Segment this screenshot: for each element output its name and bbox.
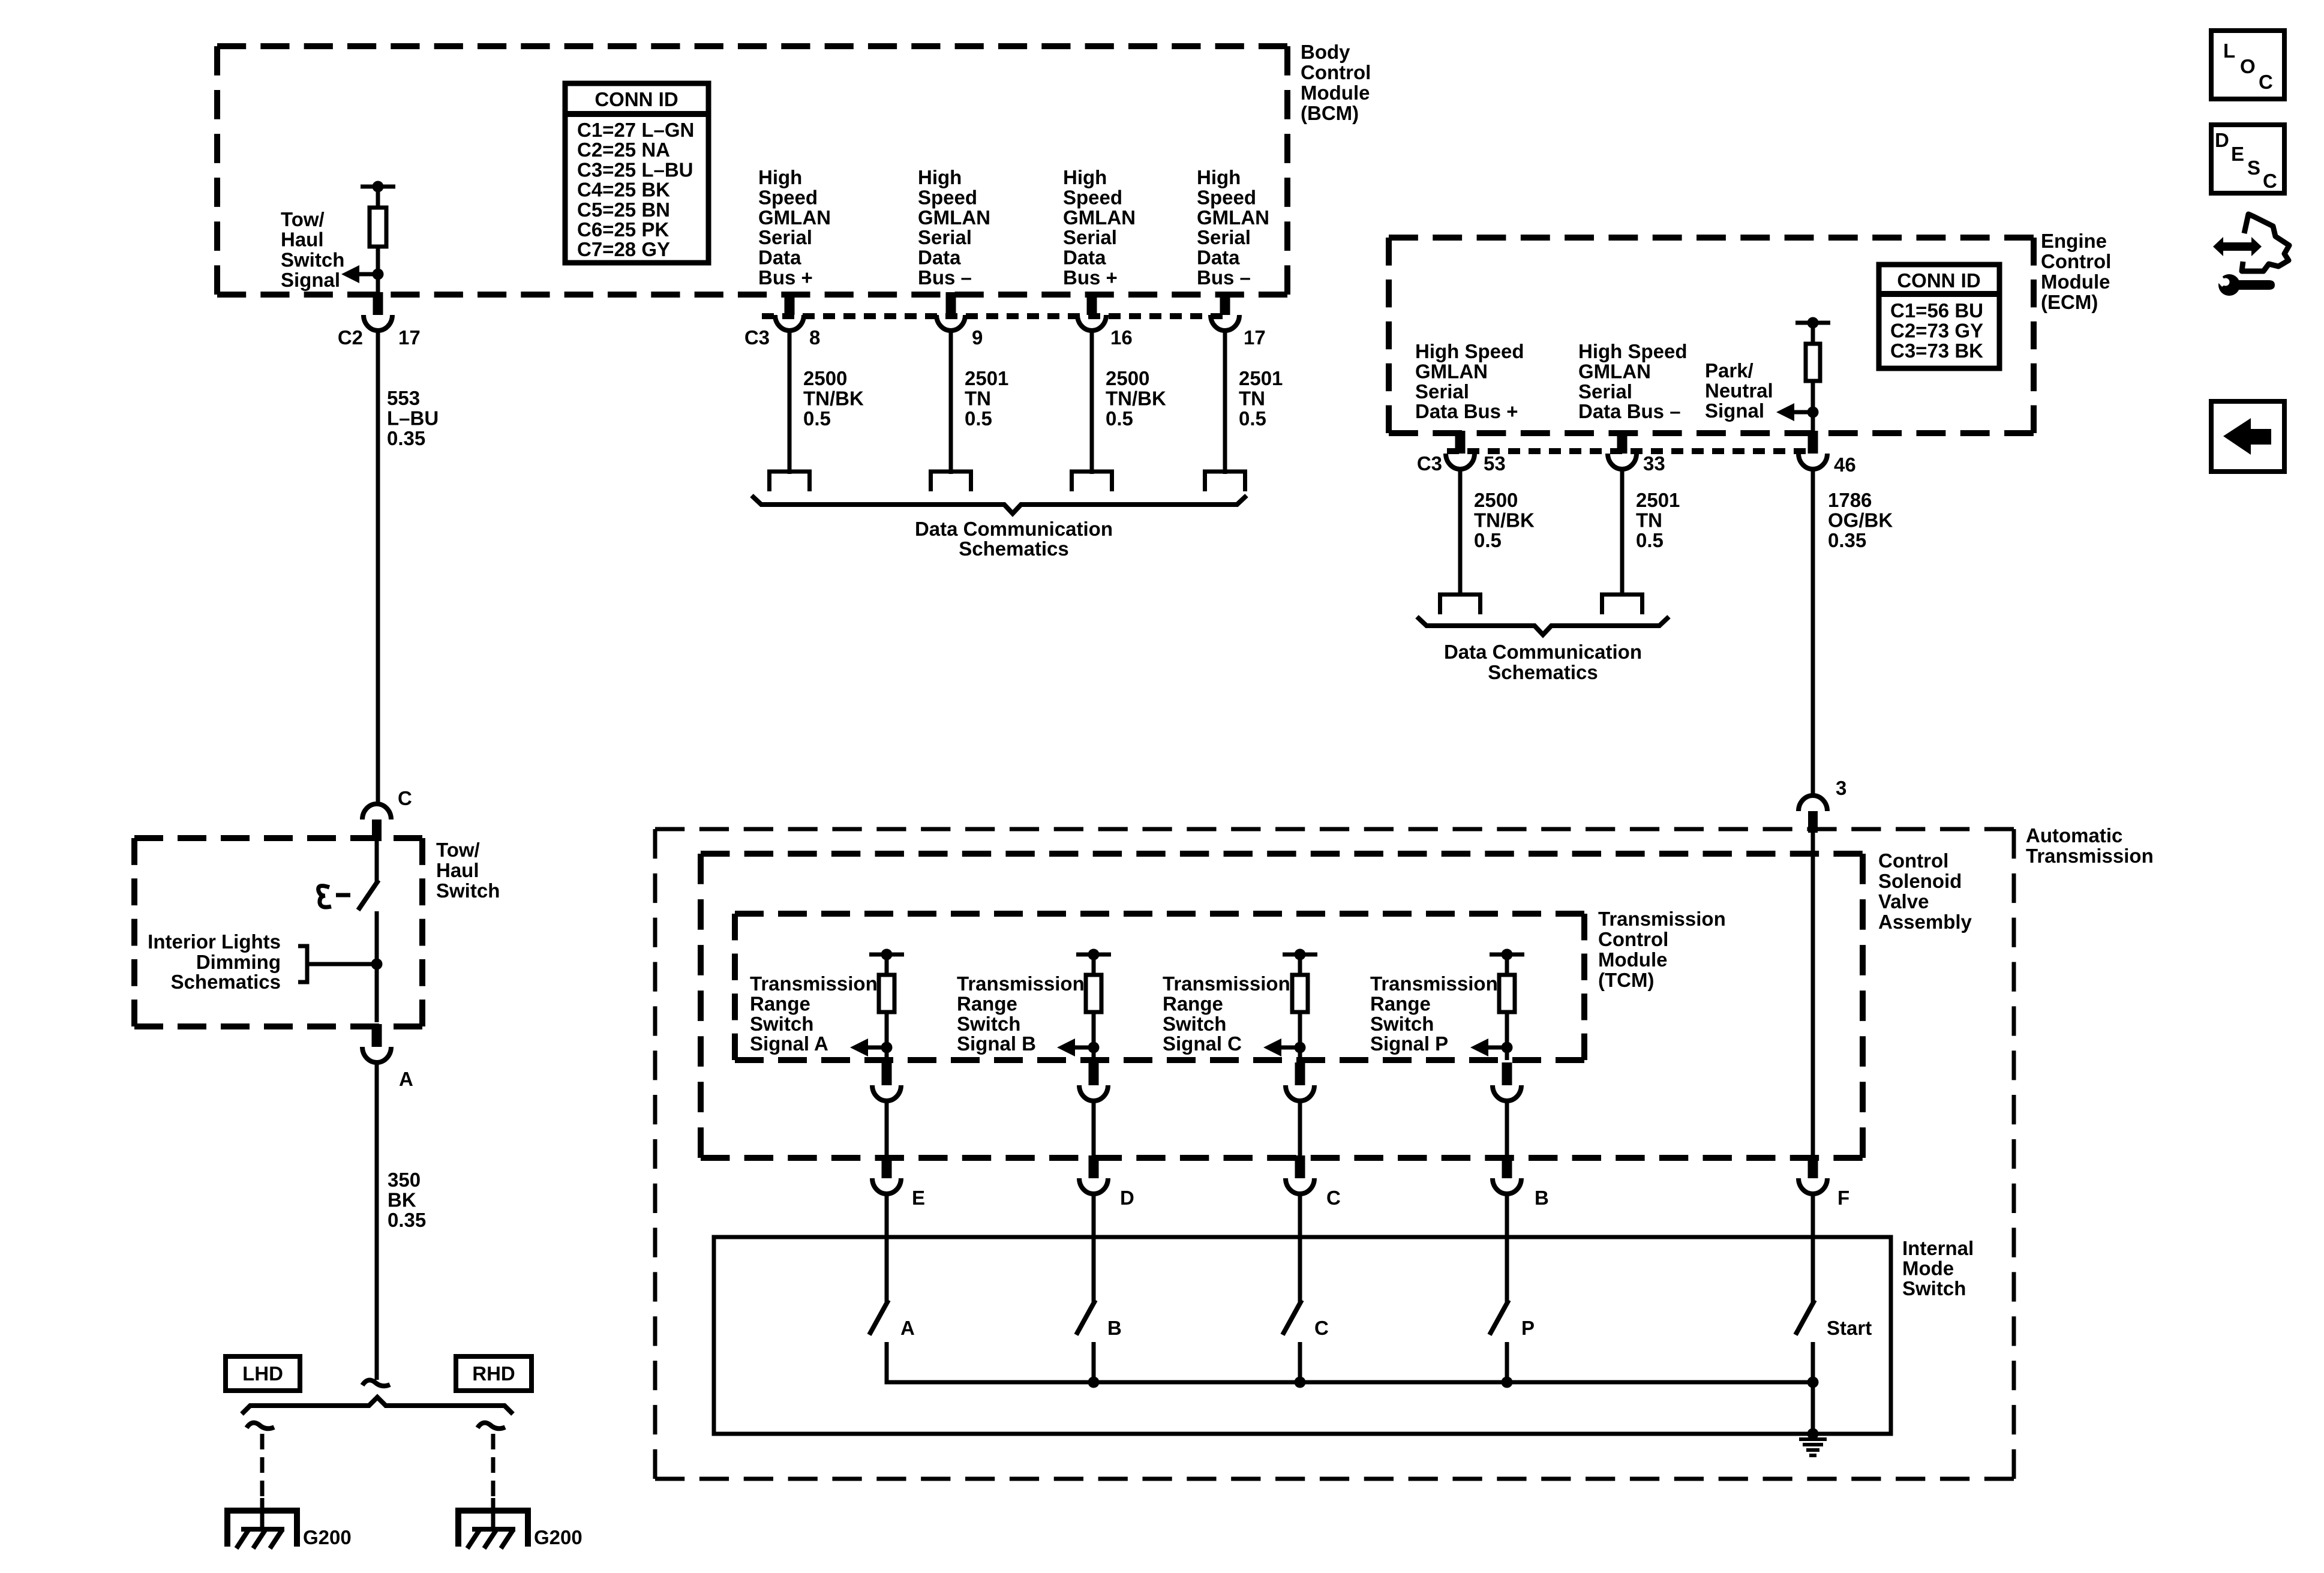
svg-text:High: High bbox=[1197, 166, 1241, 188]
svg-text:D: D bbox=[1120, 1187, 1134, 1209]
svg-text:C: C bbox=[1326, 1187, 1341, 1209]
svg-text:Transmission: Transmission bbox=[750, 972, 878, 995]
svg-text:(TCM): (TCM) bbox=[1598, 969, 1654, 991]
svg-text:L–BU: L–BU bbox=[387, 407, 439, 429]
dashed wire to ground G200 (right) bbox=[491, 1434, 496, 1498]
svg-text:Data: Data bbox=[918, 247, 961, 269]
switch box Internal Mode Switch solid outline bbox=[714, 1237, 1891, 1434]
svg-text:A: A bbox=[900, 1317, 915, 1339]
connector A at Tow/Haul switch bottom bbox=[362, 1024, 413, 1090]
svg-text:OG/BK: OG/BK bbox=[1828, 509, 1893, 531]
svg-text:Bus +: Bus + bbox=[1063, 266, 1118, 289]
wire tow/haul switch to connector A bbox=[375, 911, 379, 1022]
svg-text:TN/BK: TN/BK bbox=[1106, 387, 1166, 409]
svg-text:F: F bbox=[1837, 1187, 1849, 1209]
label Transmission Range Switch Signal P bbox=[1370, 972, 1498, 1055]
wire 553 L-BU from BCM C2-17 down to Tow/Haul switch bbox=[376, 329, 380, 806]
ground G200 symbol (left) bbox=[227, 1498, 297, 1548]
svg-text:TN/BK: TN/BK bbox=[1474, 509, 1535, 531]
label High Speed GMLAN Serial Data Bus minus (ECM pin 33) bbox=[1578, 340, 1688, 422]
svg-text:C3=73 BK: C3=73 BK bbox=[1890, 340, 1983, 362]
svg-text:Range: Range bbox=[750, 992, 810, 1014]
signal arrow Park/Neutral Signal with junction dot bbox=[1776, 403, 1819, 421]
wire label 2500 TN/BK 0.5 (ECM side) bbox=[1474, 489, 1535, 551]
svg-text:CONN ID: CONN ID bbox=[1897, 269, 1980, 292]
svg-text:Signal: Signal bbox=[1705, 400, 1764, 422]
svg-text:C1=27 L–GN: C1=27 L–GN bbox=[577, 119, 694, 141]
switch Tow/Haul blade bbox=[358, 840, 379, 910]
wire label 553 L-BU 0.35 bbox=[387, 387, 439, 449]
svg-text:Dimming: Dimming bbox=[196, 951, 281, 973]
svg-text:Park/: Park/ bbox=[1705, 359, 1753, 382]
connector C3 pin 46 at ECM bottom bbox=[1798, 431, 1827, 469]
svg-text:Serial: Serial bbox=[1578, 380, 1632, 403]
svg-text:Speed: Speed bbox=[1197, 186, 1256, 208]
label Engine Control Module (ECM) bbox=[2041, 230, 2111, 313]
resistor R-ECM park/neutral pull-up inside ECM bbox=[1795, 317, 1830, 434]
switch A (internal mode switch contact) bbox=[869, 1300, 915, 1382]
junction dot at internal mode switch case bbox=[1807, 1428, 1819, 1440]
connector D at Control Solenoid Valve Assembly bottom bbox=[1079, 1155, 1134, 1209]
svg-text:D: D bbox=[2215, 129, 2229, 151]
svg-text:Haul: Haul bbox=[281, 229, 324, 251]
svg-text:B: B bbox=[1535, 1187, 1549, 1209]
svg-text:GMLAN: GMLAN bbox=[1415, 360, 1488, 382]
svg-text:Switch: Switch bbox=[957, 1013, 1020, 1035]
svg-text:Serial: Serial bbox=[1197, 226, 1251, 248]
wire connector D into Internal Mode Switch bbox=[1092, 1193, 1096, 1302]
off-page terminator to Data Communication Schematics bbox=[770, 472, 810, 491]
svg-text:2500: 2500 bbox=[1474, 489, 1518, 511]
label Transmission Range Switch Signal C bbox=[1163, 972, 1290, 1055]
connector C3 pin 53 at ECM bottom bbox=[1446, 431, 1475, 469]
svg-text:2501: 2501 bbox=[965, 367, 1008, 389]
svg-text:E: E bbox=[912, 1187, 925, 1209]
signal arrow Transmission Range Switch Signal P with junction dot bbox=[1470, 1038, 1513, 1056]
svg-text:G200: G200 bbox=[303, 1526, 352, 1548]
connector at TCM bottom (signal C) bbox=[1286, 1062, 1314, 1101]
svg-text:Control: Control bbox=[1878, 849, 1948, 872]
svg-text:33: 33 bbox=[1643, 452, 1665, 475]
label Interior Lights Dimming Schematics bbox=[148, 930, 281, 993]
wire label 1786 OG/BK 0.35 bbox=[1828, 489, 1893, 551]
wire label 2500 TN/BK 0.5 bbox=[1106, 367, 1166, 430]
svg-text:Transmission: Transmission bbox=[957, 972, 1085, 995]
wire label 350 BK 0.35 bbox=[388, 1169, 426, 1231]
connector C at Control Solenoid Valve Assembly bottom bbox=[1286, 1155, 1341, 1209]
option box RHD bbox=[456, 1356, 532, 1391]
svg-text:S: S bbox=[2247, 157, 2260, 179]
svg-text:GMLAN: GMLAN bbox=[1197, 206, 1269, 229]
svg-text:Internal: Internal bbox=[1902, 1237, 1974, 1259]
svg-text:Serial: Serial bbox=[918, 226, 972, 248]
svg-text:C5=25 BN: C5=25 BN bbox=[577, 199, 670, 221]
svg-text:C: C bbox=[1314, 1317, 1329, 1339]
wire connector E into Internal Mode Switch bbox=[885, 1193, 889, 1302]
label Data Communication Schematics (ECM side) bbox=[1444, 641, 1642, 683]
svg-text:TN: TN bbox=[965, 387, 991, 409]
svg-text:High: High bbox=[918, 166, 962, 188]
resistor R-TCM transmission range switch signal A bbox=[869, 949, 904, 1061]
connector B at Control Solenoid Valve Assembly bottom bbox=[1493, 1155, 1549, 1209]
svg-text:16: 16 bbox=[1110, 326, 1133, 349]
svg-text:P: P bbox=[1521, 1317, 1535, 1339]
svg-text:Module: Module bbox=[1301, 82, 1370, 104]
svg-text:Transmission: Transmission bbox=[1370, 972, 1498, 995]
resistor R-TCM transmission range switch signal P bbox=[1490, 949, 1524, 1061]
svg-text:0.5: 0.5 bbox=[965, 407, 992, 430]
svg-text:Module: Module bbox=[2041, 271, 2110, 293]
svg-text:C6=25 PK: C6=25 PK bbox=[577, 218, 669, 241]
svg-text:GMLAN: GMLAN bbox=[1578, 360, 1651, 382]
junction dot bus at switch B bbox=[1088, 1377, 1100, 1388]
svg-text:C1=56 BU: C1=56 BU bbox=[1890, 299, 1983, 322]
assembly box Control Solenoid Valve Assembly dashed outline bbox=[701, 854, 1863, 1158]
svg-text:0.35: 0.35 bbox=[388, 1209, 426, 1231]
svg-text:Data Bus +: Data Bus + bbox=[1415, 400, 1518, 422]
svg-text:Mode: Mode bbox=[1902, 1257, 1954, 1279]
svg-text:C2: C2 bbox=[338, 326, 363, 349]
svg-text:Signal C: Signal C bbox=[1163, 1032, 1242, 1055]
svg-text:C: C bbox=[398, 787, 412, 809]
svg-text:Transmission: Transmission bbox=[2026, 845, 2154, 867]
svg-text:2500: 2500 bbox=[803, 367, 847, 389]
svg-text:LHD: LHD bbox=[242, 1362, 283, 1385]
svg-text:Transmission: Transmission bbox=[1598, 908, 1726, 930]
ground G200 symbol (right) bbox=[458, 1498, 528, 1548]
svg-text:Speed: Speed bbox=[918, 186, 977, 208]
svg-text:High Speed: High Speed bbox=[1578, 340, 1688, 362]
svg-text:Body: Body bbox=[1301, 41, 1350, 63]
svg-text:Control: Control bbox=[2041, 250, 2111, 272]
wire TCM to internal mode switch contact C bbox=[1298, 1100, 1302, 1158]
svg-text:0.35: 0.35 bbox=[387, 427, 425, 449]
svg-text:C2=73 GY: C2=73 GY bbox=[1890, 319, 1983, 341]
svg-text:Switch: Switch bbox=[1370, 1013, 1434, 1035]
wire bus to ground point bbox=[1811, 1382, 1815, 1434]
wire 2501 TN GMLAN bus (ECM pin 33) bbox=[1620, 468, 1625, 596]
option split brace LHD/RHD bbox=[242, 1397, 513, 1414]
connector at TCM bottom (signal P) bbox=[1493, 1062, 1521, 1101]
resistor R-TCM transmission range switch signal C bbox=[1283, 949, 1317, 1061]
svg-text:Range: Range bbox=[957, 992, 1017, 1014]
wire label 2500 TN/BK 0.5 bbox=[803, 367, 864, 430]
dotted connector-bank line C3 (BCM) bbox=[762, 313, 1225, 319]
svg-text:8: 8 bbox=[809, 326, 820, 349]
svg-text:Schematics: Schematics bbox=[1488, 661, 1598, 683]
label Transmission Range Switch Signal A bbox=[750, 972, 878, 1055]
switch spring contact symbol bbox=[319, 886, 331, 908]
connector pin 3 at Automatic Transmission top bbox=[1798, 777, 1846, 833]
label High Speed GMLAN Serial Data Bus minus (BCM pin 9) bbox=[918, 166, 990, 289]
brace collector to Data Communication Schematics (ECM side) bbox=[1417, 617, 1669, 635]
connector at TCM bottom (signal B) bbox=[1079, 1062, 1108, 1101]
svg-text:Speed: Speed bbox=[1063, 186, 1122, 208]
svg-text:Bus –: Bus – bbox=[1197, 266, 1251, 289]
svg-text:Bus –: Bus – bbox=[918, 266, 972, 289]
label Tow/Haul Switch bbox=[436, 839, 500, 902]
svg-text:Signal A: Signal A bbox=[750, 1032, 828, 1055]
connector E at Control Solenoid Valve Assembly bottom bbox=[872, 1155, 925, 1209]
label Internal Mode Switch bbox=[1902, 1237, 1974, 1299]
svg-text:Data: Data bbox=[1197, 247, 1240, 269]
icon wrench and double arrow (component locator) bbox=[2213, 214, 2289, 296]
svg-text:GMLAN: GMLAN bbox=[918, 206, 990, 229]
signal arrow Tow/Haul Switch Signal with junction dot bbox=[341, 265, 384, 283]
off-page terminator to Data Communication Schematics bbox=[1205, 472, 1245, 491]
label High Speed GMLAN Serial Data Bus plus (BCM pin 8) bbox=[758, 166, 831, 289]
brace collector to Data Communication Schematics (BCM side) bbox=[752, 496, 1247, 514]
component box Tow/Haul Switch dashed outline bbox=[134, 838, 422, 1026]
resistor R-BCM tow/haul pull-up inside BCM bbox=[361, 181, 395, 295]
svg-text:0.5: 0.5 bbox=[1106, 407, 1133, 430]
svg-text:0.35: 0.35 bbox=[1828, 529, 1866, 551]
svg-text:Transmission: Transmission bbox=[1163, 972, 1290, 995]
bracket to interior lights dimming schematics bbox=[298, 946, 307, 982]
wire connector F into Internal Mode Switch bbox=[1811, 1193, 1815, 1302]
wire label 2501 TN 0.5 bbox=[1239, 367, 1283, 430]
svg-text:High: High bbox=[758, 166, 802, 188]
label High Speed GMLAN Serial Data Bus plus (ECM pin 53) bbox=[1415, 340, 1524, 422]
switch B (internal mode switch contact) bbox=[1076, 1300, 1122, 1382]
svg-text:17: 17 bbox=[398, 326, 421, 349]
svg-text:E: E bbox=[2231, 143, 2244, 165]
wire TCM to internal mode switch contact B bbox=[1092, 1100, 1096, 1158]
svg-text:1786: 1786 bbox=[1828, 489, 1872, 511]
wire connector B into Internal Mode Switch bbox=[1505, 1193, 1509, 1302]
svg-text:Solenoid: Solenoid bbox=[1878, 870, 1962, 892]
svg-text:17: 17 bbox=[1244, 326, 1266, 349]
wire connector C into Internal Mode Switch bbox=[1298, 1193, 1302, 1302]
svg-text:2501: 2501 bbox=[1239, 367, 1283, 389]
signal arrow Transmission Range Switch Signal C with junction dot bbox=[1263, 1038, 1306, 1056]
signal arrow Transmission Range Switch Signal B with junction dot bbox=[1057, 1038, 1100, 1056]
wire 350 BK ground wire bbox=[375, 1061, 379, 1380]
module box BCM (Body Control Module) dashed outline bbox=[217, 46, 1287, 295]
svg-text:2501: 2501 bbox=[1636, 489, 1680, 511]
switch P (internal mode switch contact) bbox=[1490, 1300, 1535, 1382]
off-page terminator to Data Communication Schematics (ECM side) bbox=[1602, 595, 1643, 614]
svg-text:53: 53 bbox=[1484, 452, 1506, 475]
svg-text:Range: Range bbox=[1370, 992, 1431, 1014]
svg-text:GMLAN: GMLAN bbox=[1063, 206, 1136, 229]
svg-text:Data: Data bbox=[758, 247, 801, 269]
wire TCM to internal mode switch contact A bbox=[885, 1100, 889, 1158]
svg-text:Speed: Speed bbox=[758, 186, 818, 208]
svg-text:C: C bbox=[2259, 71, 2273, 93]
option box LHD bbox=[226, 1356, 300, 1391]
wire 2501 TN GMLAN bus (BCM pin 17) bbox=[1223, 329, 1227, 474]
label Transmission Control Module (TCM) bbox=[1598, 908, 1726, 991]
connector C3 pin 17 at BCM bottom bbox=[1211, 292, 1239, 331]
off-page terminator to Data Communication Schematics (ECM side) bbox=[1440, 595, 1481, 614]
label Tow/Haul Switch Signal bbox=[281, 208, 344, 291]
svg-text:Engine: Engine bbox=[2041, 230, 2107, 252]
svg-text:Switch: Switch bbox=[281, 248, 344, 271]
label Park/Neutral Signal bbox=[1705, 359, 1773, 422]
wire 2500 TN/BK GMLAN bus (BCM pin 16) bbox=[1090, 329, 1094, 474]
svg-text:GMLAN: GMLAN bbox=[758, 206, 831, 229]
svg-text:High Speed: High Speed bbox=[1415, 340, 1524, 362]
dashed wire to ground G200 (left) bbox=[260, 1434, 265, 1498]
assembly box Automatic Transmission dashed outline bbox=[655, 829, 2014, 1479]
junction dot bus at switch C bbox=[1295, 1377, 1306, 1388]
wire break symbol right option drop bbox=[478, 1422, 505, 1428]
dashed actuator tick bbox=[336, 893, 350, 897]
svg-text:Switch: Switch bbox=[750, 1013, 813, 1035]
svg-text:Haul: Haul bbox=[436, 859, 479, 881]
svg-text:Switch: Switch bbox=[436, 879, 500, 902]
svg-text:C3: C3 bbox=[744, 326, 770, 349]
svg-text:G200: G200 bbox=[534, 1526, 582, 1548]
svg-text:Automatic: Automatic bbox=[2026, 824, 2122, 846]
off-page terminator to Data Communication Schematics bbox=[1072, 472, 1112, 491]
svg-text:Interior Lights: Interior Lights bbox=[148, 930, 281, 953]
module box TCM (Transmission Control Module) dashed outline bbox=[735, 914, 1584, 1060]
wire common bus of internal mode switch bbox=[887, 1380, 1813, 1382]
svg-text:C2=25 NA: C2=25 NA bbox=[577, 139, 670, 161]
svg-text:Signal B: Signal B bbox=[957, 1032, 1036, 1055]
svg-text:C7=28 GY: C7=28 GY bbox=[577, 238, 670, 260]
label Body Control Module (BCM) bbox=[1301, 41, 1371, 124]
svg-text:9: 9 bbox=[972, 326, 983, 349]
svg-text:Switch: Switch bbox=[1902, 1277, 1966, 1299]
off-page terminator to Data Communication Schematics bbox=[931, 472, 971, 491]
svg-text:High: High bbox=[1063, 166, 1107, 188]
switch C (internal mode switch contact) bbox=[1283, 1300, 1329, 1382]
svg-text:350: 350 bbox=[388, 1169, 421, 1191]
svg-text:Range: Range bbox=[1163, 992, 1223, 1014]
svg-text:Data Communication: Data Communication bbox=[1444, 641, 1642, 663]
svg-text:Assembly: Assembly bbox=[1878, 911, 1972, 933]
svg-text:553: 553 bbox=[387, 387, 420, 409]
resistor R-TCM transmission range switch signal B bbox=[1076, 949, 1111, 1061]
label High Speed GMLAN Serial Data Bus minus (BCM pin 17) bbox=[1197, 166, 1269, 289]
svg-text:Signal: Signal bbox=[281, 269, 340, 291]
svg-text:Signal P: Signal P bbox=[1370, 1032, 1448, 1055]
svg-text:Data Bus –: Data Bus – bbox=[1578, 400, 1681, 422]
svg-text:Schematics: Schematics bbox=[959, 538, 1068, 560]
connector C2 pin 17 at BCM bottom bbox=[338, 292, 421, 349]
wire 2500 TN/BK GMLAN bus (ECM pin 53) bbox=[1458, 468, 1463, 596]
signal arrow Transmission Range Switch Signal A with junction dot bbox=[850, 1038, 893, 1056]
wire break symbol left option drop bbox=[247, 1422, 274, 1428]
connector C3 pin 33 at ECM bottom bbox=[1608, 431, 1637, 469]
svg-text:0.5: 0.5 bbox=[1239, 407, 1266, 430]
wire interior lights tap with junction dot bbox=[307, 959, 383, 970]
connector F at Control Solenoid Valve Assembly bottom bbox=[1798, 1155, 1849, 1209]
svg-text:2500: 2500 bbox=[1106, 367, 1149, 389]
svg-text:Serial: Serial bbox=[1415, 380, 1469, 403]
connector at TCM bottom (signal A) bbox=[872, 1062, 901, 1101]
svg-text:O: O bbox=[2240, 55, 2256, 77]
label High Speed GMLAN Serial Data Bus plus (BCM pin 16) bbox=[1063, 166, 1136, 289]
svg-text:C3=25 L–BU: C3=25 L–BU bbox=[577, 158, 693, 181]
icon box LOC bbox=[2211, 31, 2284, 99]
svg-text:0.5: 0.5 bbox=[803, 407, 831, 430]
svg-text:Serial: Serial bbox=[758, 226, 812, 248]
svg-text:Switch: Switch bbox=[1163, 1013, 1226, 1035]
svg-text:0.5: 0.5 bbox=[1636, 529, 1664, 551]
svg-text:Control: Control bbox=[1301, 61, 1371, 83]
wire label 2501 TN 0.5 bbox=[965, 367, 1008, 430]
wire label 2501 TN 0.5 (ECM side) bbox=[1636, 489, 1680, 551]
svg-text:Data: Data bbox=[1063, 247, 1106, 269]
label Control Solenoid Valve Assembly bbox=[1878, 849, 1972, 933]
svg-text:Tow/: Tow/ bbox=[281, 208, 325, 230]
svg-text:A: A bbox=[399, 1068, 413, 1090]
svg-text:Neutral: Neutral bbox=[1705, 379, 1773, 401]
svg-text:L: L bbox=[2223, 40, 2235, 62]
svg-text:B: B bbox=[1107, 1317, 1122, 1339]
icon box DESC bbox=[2211, 125, 2284, 193]
svg-text:Tow/: Tow/ bbox=[436, 839, 480, 861]
connector C3 pin 8 at BCM bottom bbox=[775, 292, 804, 331]
label Data Communication Schematics (BCM side) bbox=[915, 518, 1113, 560]
wire TCM to internal mode switch contact P bbox=[1505, 1100, 1509, 1158]
svg-text:Valve: Valve bbox=[1878, 890, 1929, 912]
svg-text:0.5: 0.5 bbox=[1474, 529, 1502, 551]
svg-text:Data Communication: Data Communication bbox=[915, 518, 1113, 540]
dotted connector-bank line C3 (ECM) bbox=[1447, 448, 1813, 454]
svg-text:CONN ID: CONN ID bbox=[594, 88, 678, 110]
wire break symbol above option brace bbox=[362, 1380, 390, 1386]
wire 2500 TN/BK GMLAN bus (BCM pin 8) bbox=[788, 329, 792, 474]
icon box back arrow bbox=[2211, 401, 2284, 472]
svg-text:TN: TN bbox=[1239, 387, 1265, 409]
wire pin 3 to control solenoid valve assembly bbox=[1811, 831, 1815, 1158]
junction dot bus at switch P bbox=[1502, 1377, 1513, 1388]
svg-text:Start: Start bbox=[1827, 1317, 1872, 1339]
label Automatic Transmission bbox=[2026, 824, 2154, 867]
svg-text:Schematics: Schematics bbox=[171, 971, 281, 993]
switch Start (internal mode switch contact) bbox=[1795, 1300, 1872, 1382]
wire 2501 TN GMLAN bus (BCM pin 9) bbox=[949, 329, 953, 474]
svg-text:46: 46 bbox=[1834, 454, 1856, 476]
table CONN ID (BCM connector IDs) bbox=[565, 83, 708, 263]
svg-text:C: C bbox=[2263, 170, 2277, 192]
table CONN ID (ECM connector IDs) bbox=[1879, 265, 1999, 368]
svg-text:C4=25 BK: C4=25 BK bbox=[577, 179, 670, 201]
connector C at Tow/Haul switch top bbox=[362, 787, 412, 841]
svg-text:(ECM): (ECM) bbox=[2041, 291, 2098, 313]
svg-text:RHD: RHD bbox=[472, 1362, 515, 1385]
svg-text:(BCM): (BCM) bbox=[1301, 102, 1359, 124]
wire 1786 OG/BK from ECM pin 46 down to transmission bbox=[1811, 468, 1815, 797]
connector C3 pin 9 at BCM bottom bbox=[936, 292, 965, 331]
svg-text:Bus +: Bus + bbox=[758, 266, 813, 289]
svg-text:Serial: Serial bbox=[1063, 226, 1117, 248]
svg-text:TN: TN bbox=[1636, 509, 1662, 531]
label Transmission Range Switch Signal B bbox=[957, 972, 1085, 1055]
junction dot bus at switch Start bbox=[1807, 1377, 1819, 1388]
svg-text:Control: Control bbox=[1598, 928, 1668, 950]
connector C3 pin 16 at BCM bottom bbox=[1077, 292, 1106, 331]
svg-text:TN/BK: TN/BK bbox=[803, 387, 864, 409]
ground chassis symbol inside transmission bbox=[1799, 1439, 1827, 1455]
svg-text:3: 3 bbox=[1836, 777, 1846, 799]
svg-text:Module: Module bbox=[1598, 948, 1667, 971]
module box ECM (Engine Control Module) dashed outline bbox=[1389, 238, 2034, 433]
svg-text:C3: C3 bbox=[1417, 452, 1442, 475]
svg-text:BK: BK bbox=[388, 1188, 416, 1211]
